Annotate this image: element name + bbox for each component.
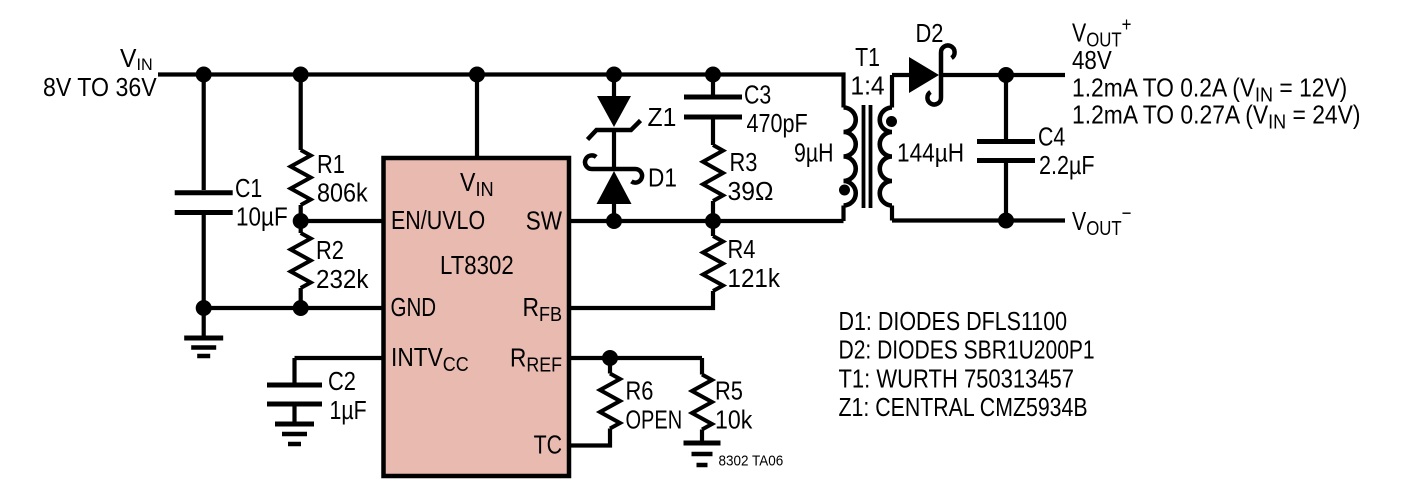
resistor R4: [711, 221, 715, 236]
wire R1 top lead: [299, 75, 303, 151]
label R6 OPEN: [626, 377, 683, 434]
svg-text:R3: R3: [730, 148, 758, 177]
diode D1 (curl bar + up triangle): [585, 155, 642, 204]
svg-text:144µH: 144µH: [897, 139, 964, 168]
svg-text:OPEN: OPEN: [626, 405, 683, 434]
wire C3-R3 lead: [711, 120, 715, 146]
junction dot C4 bottom: [998, 213, 1014, 229]
svg-text:GND: GND: [391, 293, 437, 322]
wire top VIN rail: [158, 75, 844, 108]
wire GND rail: [204, 306, 383, 310]
wire RREF rail: [569, 356, 702, 360]
wire D1 bottom lead: [612, 204, 616, 221]
zener Z1: [588, 96, 641, 140]
capacitor C4: [1004, 75, 1008, 139]
svg-text:39Ω: 39Ω: [728, 177, 774, 206]
wire INTVCC rail: [295, 356, 384, 360]
wire secondary top to D2: [892, 73, 909, 77]
svg-text:T1: T1: [855, 43, 880, 73]
label C1 10uF: [235, 174, 288, 232]
wire R1 bottom / EN node: [301, 205, 383, 221]
resistor R6: [608, 358, 612, 374]
svg-text:8V TO 36V: 8V TO 36V: [43, 74, 157, 103]
resistor R2: [299, 221, 303, 233]
svg-text:1µF: 1µF: [330, 396, 367, 426]
wire VOUT- rail: [892, 218, 1065, 222]
T1 secondary winding: [880, 75, 892, 221]
wire C1 bottom: [202, 215, 206, 308]
svg-text:9µH: 9µH: [794, 139, 834, 169]
wire R4 to RFB: [569, 291, 713, 308]
wire SW rail: [569, 219, 844, 223]
wire C2 bottom: [292, 407, 296, 422]
svg-text:D2: DIODES SBR1U200P1: D2: DIODES SBR1U200P1: [839, 337, 1095, 366]
svg-text:232k: 232k: [316, 265, 369, 294]
label R3 39ohm: [728, 148, 774, 206]
svg-text:C1: C1: [235, 174, 262, 204]
svg-text:Z1: CENTRAL CMZ5934B: Z1: CENTRAL CMZ5934B: [839, 393, 1088, 423]
svg-text:10k: 10k: [715, 406, 753, 435]
svg-text:SW: SW: [526, 207, 562, 236]
junction dot RREF/R6: [602, 350, 618, 366]
label R5 10k: [715, 377, 753, 435]
resistor R5: [700, 358, 704, 375]
label C2 1uF: [328, 367, 367, 425]
wire VOUT+ rail: [941, 73, 1065, 77]
wire Z1 top lead: [612, 75, 616, 98]
T1 secondary phase dot: [886, 116, 897, 127]
wire C1 branch: [202, 75, 206, 191]
junction dot C3 top: [705, 67, 721, 83]
notes list: [839, 307, 1095, 422]
svg-text:T1: WURTH 750313457: T1: WURTH 750313457: [839, 365, 1075, 394]
svg-text:D2: D2: [916, 19, 944, 48]
svg-text:470pF: 470pF: [747, 109, 808, 138]
junction dot Z1 top: [606, 67, 622, 83]
junction dot D1 bottom: [606, 213, 622, 229]
junction dot R3/R4: [705, 213, 721, 229]
op-amp U1 LT8302 IC body: [384, 158, 570, 476]
label C4 2.2uF: [1038, 122, 1095, 180]
svg-text:C4: C4: [1038, 122, 1065, 152]
wire R6 bottom to TC: [569, 429, 610, 446]
svg-text:TC: TC: [534, 431, 562, 461]
svg-text:R5: R5: [715, 377, 743, 406]
label R4 121k: [728, 235, 781, 293]
svg-text:R4: R4: [728, 235, 756, 264]
svg-text:C2: C2: [328, 367, 356, 396]
wire C3 branch top: [711, 75, 715, 98]
junction dot C4 top: [998, 67, 1014, 83]
ground under C2: [275, 424, 314, 444]
wire gnd stub: [202, 308, 206, 336]
capacitor C2: [292, 358, 296, 383]
wire R3 bottom lead: [711, 201, 715, 221]
svg-text:VIN: VIN: [120, 44, 153, 74]
capacitor C3: [684, 97, 742, 117]
junction dot R1 top: [293, 67, 309, 83]
junction dot VIN pin: [469, 67, 485, 83]
svg-text:D1: DIODES DFLS1100: D1: DIODES DFLS1100: [839, 307, 1068, 336]
resistor R1: [291, 150, 311, 205]
T1 primary winding: [844, 107, 856, 221]
svg-text:1:4: 1:4: [850, 72, 884, 101]
capacitor C1: [175, 193, 233, 213]
svg-text:121k: 121k: [728, 264, 781, 293]
junction dot gnd left: [196, 300, 212, 316]
label T1 1:4: [850, 43, 884, 101]
svg-text:EN/UVLO: EN/UVLO: [391, 206, 485, 235]
svg-text:R6: R6: [626, 377, 654, 406]
wire VIN pin drop: [475, 75, 479, 159]
diode D2 (right triangle + curl bar): [909, 45, 955, 104]
ground under R5: [684, 443, 721, 465]
T1 primary phase dot: [839, 185, 850, 196]
node VOUT+ labels: [1072, 13, 1361, 134]
wire Z1-D1 lead: [612, 130, 616, 169]
junction dot R2 bottom: [293, 300, 309, 316]
svg-text:D1: D1: [648, 164, 677, 193]
label R1 806k: [317, 150, 368, 208]
svg-text:Z1: Z1: [648, 103, 677, 132]
svg-text:LT8302: LT8302: [440, 251, 514, 280]
svg-text:1.2mA TO 0.27A (VIN = 24V): 1.2mA TO 0.27A (VIN = 24V): [1072, 101, 1361, 134]
svg-text:48V: 48V: [1072, 46, 1113, 75]
label C3 470pF: [744, 81, 808, 139]
svg-text:VOUT+: VOUT+: [1072, 13, 1132, 51]
ground under C1: [184, 338, 223, 356]
resistor R3: [703, 145, 723, 201]
junction dot C1 top: [196, 67, 212, 83]
svg-text:VOUT−: VOUT−: [1072, 201, 1132, 239]
svg-text:2.2µF: 2.2µF: [1039, 151, 1095, 180]
svg-text:10µF: 10µF: [236, 203, 288, 232]
wire R5 bottom lead: [700, 430, 704, 442]
svg-text:C3: C3: [744, 81, 771, 111]
label R2 232k: [316, 236, 369, 294]
svg-text:R1: R1: [317, 150, 345, 179]
svg-text:R2: R2: [316, 236, 344, 265]
svg-text:806k: 806k: [317, 179, 368, 207]
T1 core: [864, 105, 871, 208]
junction dot EN/UVLO: [293, 213, 309, 229]
node VIN input label: [43, 44, 157, 102]
svg-text:8302 TA06: 8302 TA06: [719, 452, 784, 469]
